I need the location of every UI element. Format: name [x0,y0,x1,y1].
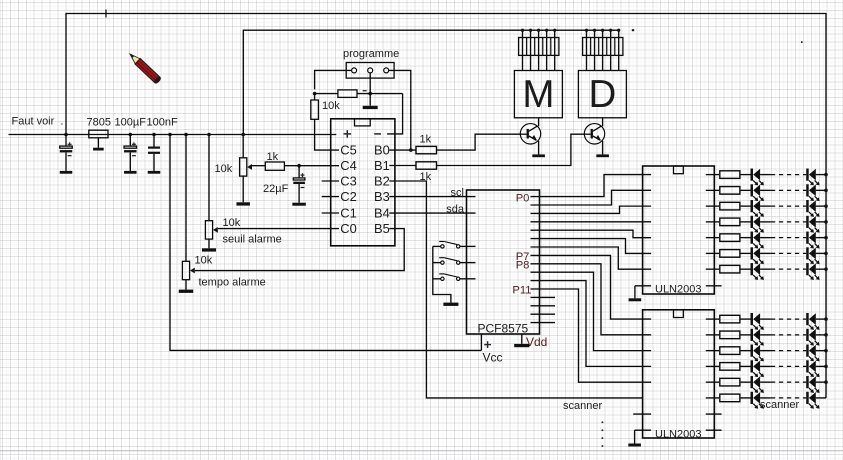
svg-text:100nF: 100nF [147,116,178,128]
transistor Q2 (D) [584,118,604,155]
canvas boundary line [0,450,843,452]
wire Vdd pin [521,334,523,344]
svg-text:programme: programme [343,48,399,60]
wire rail to tempo pot [185,135,187,262]
label pin B5 [374,221,390,236]
resistor network M [519,29,559,71]
pin stub C2 [322,196,339,198]
label minus (prog gnd) [363,90,367,92]
pin stub P15 [531,322,556,324]
svg-text:10k: 10k [215,163,233,175]
svg-text:C5: C5 [340,143,356,158]
label pin B0 [374,143,390,158]
switch S2 [433,258,476,265]
label pin C2 [340,189,356,204]
label ULN2003 #2 [655,428,701,440]
svg-text:10k: 10k [322,100,340,112]
resistor 1k C4 [265,162,284,170]
pin stub C3 [322,180,339,182]
pin stub ULN2 right 7 [706,413,722,415]
wire P3 to ULN [531,221,652,223]
wire P0 to ULN [531,175,652,197]
resistor 10k vertical [311,94,319,120]
capacitor C-in electrolytic [60,135,73,174]
wire top +V rail [66,14,826,398]
ground (10k pot) [236,202,250,205]
display module M [514,71,562,118]
LED row U2-3 (resistor + 2 LEDs) [706,345,828,362]
svg-text:Vcc: Vcc [483,350,503,364]
wire rail to seuil pot [208,135,210,221]
label scanner (right) [760,399,799,411]
svg-text:10k: 10k [195,254,213,266]
IC PCF8575 body [467,190,540,334]
switch S3 [433,274,476,281]
svg-text:PCF8575: PCF8575 [478,322,529,336]
LED row U1-1 (resistor + 2 LEDs) [706,169,828,186]
wire resistor to minus node [357,93,403,95]
svg-text:Faut voir .: Faut voir . [12,116,64,128]
display module D [578,71,626,118]
IC U1 body [331,119,395,246]
capacitor 100uF electrolytic [124,135,137,174]
LED row U2-6 (resistor + 2 LEDs) [706,392,826,409]
speck near inner rail end [632,29,634,31]
ground (switches) [443,303,458,306]
LED row U2-2 (resistor + 2 LEDs) [706,329,828,346]
svg-text:tempo alarme: tempo alarme [199,276,266,288]
label seuil alarme [223,233,282,245]
svg-text:M: M [522,73,554,116]
potentiometer seuil alarme [205,221,217,239]
pin stub P14 [531,313,556,315]
node main rail junctions [64,133,245,137]
ground (seuil pot) [202,248,216,251]
label 10k (pullup) [322,100,340,112]
label Vcc [483,350,503,364]
wire P10 to ULN [531,281,652,367]
wire inner +V rail [243,30,618,134]
ground (Vdd) [514,344,529,347]
wire B1 out [389,165,416,167]
label scanner (left) [563,400,602,412]
wire switches common [433,246,451,302]
regulator 7805 [89,130,108,150]
label 7805 [87,116,111,128]
label 1k (C4) [267,151,279,163]
node 22uF junction [297,164,301,168]
wire 1k to C4 [284,165,339,167]
svg-text:C1: C1 [340,206,356,221]
pin stub C1 [322,212,339,214]
wire ULN1 pin8 ground [635,286,651,299]
wire +5V drop to Vcc rail [170,135,481,351]
wire tempo wiper to B5 [195,229,404,271]
label 100uF [115,116,147,128]
wire P11 to ULN [531,289,652,382]
svg-text:C0: C0 [340,221,356,236]
label + pin [344,130,352,138]
wire prog pin1 [315,70,352,89]
pin stub P13 [531,305,556,307]
dotted continuation marks [601,421,603,447]
wire minus pin riser [387,94,403,134]
resistor 1k B0 [416,146,437,153]
wire P2 to ULN [531,206,652,213]
label 100nF [147,116,178,128]
svg-text:P8: P8 [516,259,530,271]
wire B4 sda [389,212,475,214]
label pin B3 [374,189,390,204]
wire pot bottom [242,176,244,202]
svg-text:D: D [588,73,616,116]
LED row U1-6 (resistor + 2 LEDs) [706,247,828,264]
ground (ULN1) [629,298,642,301]
svg-text:C3: C3 [340,174,356,189]
resistor 1k B1 [416,162,437,169]
label programme [343,48,399,60]
ground (Q2) [596,154,609,157]
wire rail to 10k pot [242,135,244,158]
label ULN2003 #1 [655,284,701,296]
ground (tempo pot) [179,290,194,293]
wire P8 to ULN [531,264,652,335]
pin stub ULN2 left 7 [633,413,651,415]
wire pin1 node to resistor [315,93,338,95]
potentiometer tempo alarme [182,261,194,279]
svg-text:P11: P11 [512,284,531,296]
svg-text:10k: 10k [223,217,241,229]
label Faut voir [12,116,64,128]
wire 1k to M base [437,134,521,150]
svg-text:seuil alarme: seuil alarme [223,233,282,245]
label sda [446,204,465,216]
wire P5 to ULN [531,239,652,254]
wire Vcc [480,334,482,350]
label pin C4 [340,158,356,173]
wire P9 to ULN [531,272,652,350]
wire seuil bottom [208,239,210,248]
label + (Vcc) [484,341,491,348]
wire B2 scanner line [389,181,642,398]
label pin B2 [374,174,390,189]
resistor 10k horizontal [338,90,357,98]
wire wiper to 1k [252,165,266,167]
label 1k (B0) [420,133,432,145]
capacitor 22uF [292,166,306,206]
svg-text:22µF: 22µF [263,183,289,195]
label 10k (seuil) [223,217,241,229]
wire P7 to ULN [531,255,652,319]
resistor network D [583,29,623,71]
label - pin [374,133,381,135]
wire 1k to D base [437,134,585,165]
pin stub ULN2 right 8 [706,429,722,431]
svg-text:B3: B3 [374,189,390,204]
label PCF8575 [478,322,529,336]
svg-text:B1: B1 [374,158,390,173]
potentiometer 10k [240,158,252,176]
svg-text:B0: B0 [374,143,390,158]
LED row U1-7 (resistor + 2 LEDs) [706,263,828,280]
ground (ULN2) [628,444,641,447]
wire 10k to C5 [315,119,339,150]
label P7 [516,251,530,263]
label pin B4 [374,206,390,221]
svg-text:Vdd: Vdd [526,335,547,349]
svg-text:ULN2003: ULN2003 [655,428,701,440]
wire main +5V rail [9,134,337,136]
node prog pin1 junction [313,92,317,96]
LED row U2-5 (resistor + 2 LEDs) [706,376,828,393]
LED row U1-4 (resistor + 2 LEDs) [706,216,828,233]
svg-text:scanner: scanner [563,400,602,412]
pin stub P12 [531,296,556,298]
label pin C1 [340,206,356,221]
speck top right [801,41,803,43]
ground (Q1) [532,154,545,157]
switch S1 [433,242,476,249]
svg-text:B4: B4 [374,206,390,221]
svg-text:B2: B2 [374,174,390,189]
label tempo alarme [199,276,266,288]
label pin C0 [340,221,356,236]
IC ULN2003 #2 body [643,310,715,438]
svg-text:scanner: scanner [760,399,799,411]
label P8 [516,259,530,271]
wire P1 to ULN [531,190,652,205]
connector programme [346,63,394,79]
LED row U1-3 (resistor + 2 LEDs) [706,200,828,217]
LED row U1-2 (resistor + 2 LEDs) [706,184,828,201]
node prog gnd junction [368,92,372,96]
transistor Q1 (M) [520,118,540,155]
label pin C5 [340,143,356,158]
label pin B1 [374,158,390,173]
wire P6 to ULN [531,247,652,269]
LED row U1-5 (resistor + 2 LEDs) [706,232,828,249]
label scl [451,187,464,199]
wire P4 to ULN [531,230,652,237]
svg-text:ULN2003: ULN2003 [655,284,701,296]
svg-text:C2: C2 [340,189,356,204]
label 22uF [263,183,289,195]
svg-text:C4: C4 [340,158,356,173]
label 10k (tempo) [195,254,213,266]
wire B0 out [389,149,416,151]
wire ULN2 pin8 ground [635,430,652,443]
label pin C3 [340,174,356,189]
svg-text:B5: B5 [374,221,390,236]
pin stub ULN1 right 8 [706,285,722,287]
wire tempo bottom [185,280,187,290]
label Vdd [526,335,547,349]
node B0 junction [409,148,413,152]
wire prog pin3 to B0 [389,70,411,150]
svg-text:7805: 7805 [87,116,111,128]
ground (programme) [363,106,378,109]
label P0 [516,192,530,204]
IC ULN2003 #1 body [643,166,715,294]
label 1k (B1) [420,171,432,183]
wire B3 scl [389,196,475,198]
svg-text:1k: 1k [420,133,432,145]
svg-text:100µF: 100µF [115,116,147,128]
label 10k (top pot) [215,163,233,175]
svg-text:P0: P0 [516,192,530,204]
label P11 [512,284,531,296]
capacitor 100nF [148,135,161,174]
wire prog pin2 to ground [369,73,371,106]
LED row U2-1 (resistor + 2 LEDs) [706,313,828,330]
wire seuil wiper to C0 [218,228,339,230]
pencil icon [127,51,161,84]
LED row U2-4 (resistor + 2 LEDs) [706,360,828,377]
pencil artifact tick on top rail [105,10,107,18]
